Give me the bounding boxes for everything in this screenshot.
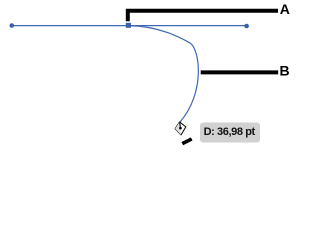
- svg-text:D: 36,98 pt: D: 36,98 pt: [204, 126, 256, 138]
- svg-text:A: A: [280, 1, 290, 17]
- svg-text:B: B: [280, 63, 290, 79]
